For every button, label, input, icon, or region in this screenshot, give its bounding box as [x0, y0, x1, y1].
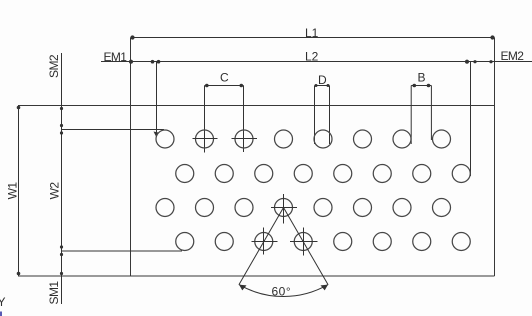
pointer SM1 to row4 tangent: [62, 250, 183, 252]
svg-text:SM1: SM1: [47, 281, 61, 305]
hole row2 #2: [215, 165, 233, 183]
dimension C: [205, 70, 244, 152]
hole row4 #4: [294, 233, 312, 251]
svg-text:W1: W1: [6, 182, 20, 200]
hole row4 #2: [215, 233, 233, 251]
plate outline: [18, 38, 495, 277]
crosshair row4 hole3: [252, 228, 278, 255]
hole row1 #3: [235, 130, 253, 148]
svg-text:L2: L2: [305, 49, 319, 63]
hole row2 #6: [373, 165, 391, 183]
crosshair row1 hole2: [193, 138, 218, 140]
svg-text:W2: W2: [48, 182, 62, 200]
watermark: [0, 295, 6, 316]
extension line EM2: [470, 62, 472, 177]
hole row3 #4: [275, 199, 293, 217]
hole row1 #1: [156, 130, 174, 148]
hole row2 #7: [413, 165, 431, 183]
60 degree angle dimension: [239, 208, 328, 299]
crosshair row3 hole4 (angle apex): [271, 194, 297, 224]
svg-text:C: C: [220, 70, 229, 84]
hole row4 #5: [334, 233, 352, 251]
hole row4 #3: [255, 233, 273, 251]
svg-text:60°: 60°: [272, 285, 292, 299]
crosshair row1 hole3: [232, 138, 258, 140]
dimension column SM2 / W2 / SM1: [47, 53, 63, 304]
hole row3 #3: [235, 199, 253, 217]
hole row4 #8: [452, 233, 470, 251]
dimension L1: [130, 26, 494, 40]
svg-text:D: D: [318, 73, 327, 87]
dimension line L2 / EM1 / EM2: [101, 49, 532, 64]
hole row4 #6: [373, 233, 391, 251]
hole row3 #2: [196, 199, 214, 217]
svg-text:SM2: SM2: [47, 54, 61, 78]
hole row2 #3: [255, 165, 273, 183]
hole row1 #5: [314, 130, 332, 148]
hole row2 #8: [452, 165, 470, 183]
hole row1 #6: [354, 130, 372, 148]
svg-text:EM1: EM1: [104, 50, 128, 64]
hole row1 #8: [433, 130, 451, 148]
crosshair row4 hole4: [290, 228, 318, 256]
svg-text:L1: L1: [305, 26, 319, 40]
hole row1 #4: [275, 130, 293, 148]
holes: [156, 130, 470, 251]
hole row3 #8: [433, 199, 451, 217]
hole row2 #1: [176, 165, 194, 183]
svg-text:EM2: EM2: [501, 49, 525, 63]
hole row3 #1: [156, 199, 174, 217]
hole row3 #7: [393, 199, 411, 217]
dimension W1: [6, 106, 21, 277]
hole row1 #2: [196, 130, 214, 148]
hole row4 #7: [413, 233, 431, 251]
dimension D: [315, 73, 330, 144]
hole row3 #5: [314, 199, 332, 217]
extension line EM1: [154, 62, 159, 138]
hole row4 #1: [176, 233, 194, 251]
hole row1 #7: [393, 130, 411, 148]
hole row2 #5: [334, 165, 352, 183]
pointer SM2 to row1 tangent: [62, 129, 165, 131]
svg-text:Y: Y: [0, 295, 6, 309]
hole row2 #4: [294, 165, 312, 183]
dimension B: [411, 71, 431, 144]
svg-text:B: B: [418, 71, 426, 85]
hole row3 #6: [354, 199, 372, 217]
